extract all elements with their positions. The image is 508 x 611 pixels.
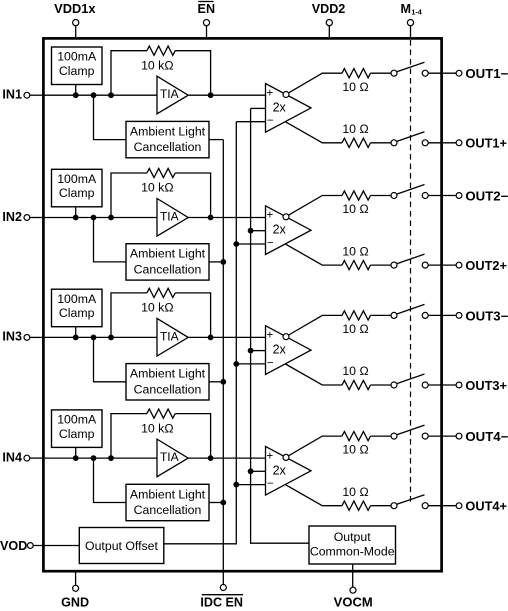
- op-amp TIA4: [157, 439, 188, 477]
- junction feedback4-TIA output: [208, 455, 214, 461]
- svg-text:IDC EN: IDC EN: [200, 596, 243, 610]
- terminal VDD2 (top): [312, 2, 346, 39]
- svg-text:IN1: IN1: [2, 88, 22, 102]
- svg-text:TIA: TIA: [160, 450, 179, 464]
- svg-text:2x: 2x: [273, 463, 287, 477]
- wire RO3P to switch: [371, 384, 392, 386]
- wire A1 inverting output: [289, 73, 342, 93]
- terminal OUT2+: [456, 259, 507, 273]
- wire feedback4 left: [111, 414, 147, 459]
- wire SW4P to OUT4+: [428, 505, 456, 507]
- wire A4 noninverting output: [286, 485, 343, 506]
- clamp block CLAMP3 (100mA Clamp): [52, 289, 103, 327]
- block ALC2 (Ambient Light Cancellation): [126, 244, 209, 280]
- resistor RO3P 10 &#937;: [342, 380, 371, 389]
- svg-text:EN: EN: [198, 2, 216, 16]
- label RO2P value: [342, 244, 368, 258]
- svg-text:10 kΩ: 10 kΩ: [141, 421, 173, 435]
- junction ALC4 tap: [91, 455, 97, 461]
- main block outline: [43, 38, 441, 571]
- svg-text:TIA: TIA: [160, 210, 179, 224]
- wire feedback3 right: [175, 293, 210, 338]
- svg-text:10 Ω: 10 Ω: [342, 80, 368, 94]
- label RF2 value: [141, 181, 173, 195]
- svg-text:Ambient Light: Ambient Light: [130, 247, 206, 261]
- label RO4P value: [342, 485, 368, 499]
- svg-text:OUT4−: OUT4−: [465, 430, 508, 444]
- switch SW4M: [391, 425, 428, 439]
- terminal OUT1+: [456, 137, 507, 151]
- svg-text:TIA: TIA: [160, 329, 179, 343]
- svg-text:100mA: 100mA: [57, 292, 97, 306]
- svg-text:−: −: [267, 357, 274, 369]
- wire clamp2 stem: [75, 207, 77, 218]
- svg-text:Cancellation: Cancellation: [134, 263, 202, 277]
- junction feedback4 left: [108, 455, 114, 461]
- wire SW1M to OUT1&#8722;: [428, 72, 456, 74]
- wire SW3M to OUT3&#8722;: [428, 314, 456, 316]
- wire ALC4 output: [209, 502, 223, 504]
- svg-text:10 Ω: 10 Ω: [342, 485, 368, 499]
- wire A1 noninverting output: [286, 122, 343, 143]
- wire amp2 mid input: [251, 230, 266, 232]
- svg-text:Common-Mode: Common-Mode: [310, 544, 395, 558]
- svg-text:Output: Output: [334, 530, 371, 544]
- svg-text:Ambient Light: Ambient Light: [130, 367, 206, 381]
- junction feedback1 left: [108, 92, 114, 98]
- wire RO1P to switch: [371, 142, 392, 144]
- svg-text:2x: 2x: [273, 100, 287, 114]
- wire feedback3 left: [111, 293, 147, 338]
- wire TIA4 output to amp: [188, 457, 265, 459]
- wire A3 noninverting output: [286, 364, 343, 385]
- wire to ALC1 input: [94, 95, 127, 139]
- label RO3P value: [342, 364, 368, 378]
- resistor RO4P 10 &#937;: [342, 501, 371, 510]
- svg-text:OUT3−: OUT3−: [465, 309, 508, 323]
- bus A (ALC control to IDC EN): [222, 140, 224, 585]
- svg-text:1-4: 1-4: [411, 7, 421, 16]
- svg-text:10 Ω: 10 Ω: [342, 244, 368, 258]
- junction clamp4-IN4: [73, 455, 79, 461]
- terminal GND: [61, 585, 89, 609]
- wire feedback2 left: [111, 173, 147, 218]
- wire SW2M to OUT2&#8722;: [428, 195, 456, 197]
- svg-text:10 Ω: 10 Ω: [342, 364, 368, 378]
- resistor RO4M 10 &#937;: [342, 432, 371, 441]
- svg-text:VDD1x: VDD1x: [54, 2, 95, 16]
- bus B (minus inputs to Output Offset): [164, 122, 237, 544]
- inverting output bubble A4: [283, 454, 289, 460]
- svg-text:Clamp: Clamp: [59, 186, 95, 200]
- inverting output bubble A3: [283, 334, 289, 340]
- wire A2 inverting output: [289, 196, 342, 216]
- resistor RF1 10 k&#937;: [147, 46, 175, 55]
- junction clamp3-IN3: [73, 335, 79, 341]
- op-amp A2 (2x output driver): [266, 206, 312, 255]
- terminal IN1: [2, 88, 43, 102]
- svg-text:100mA: 100mA: [57, 413, 97, 427]
- wire bus B start to amp1 minus input: [236, 121, 265, 123]
- op-amp A4 (2x output driver): [266, 446, 312, 495]
- wire clamp1 stem: [75, 85, 77, 96]
- svg-text:GND: GND: [61, 596, 89, 610]
- svg-text:OUT1−: OUT1−: [465, 67, 508, 81]
- wire SW2P to OUT2+: [428, 264, 456, 266]
- junction ALC4-bus: [220, 500, 226, 506]
- svg-text:IN3: IN3: [2, 330, 22, 344]
- wire amp4 minus input: [236, 484, 265, 486]
- junction ALC2 tap: [91, 215, 97, 221]
- wire amp3 mid input: [251, 350, 266, 352]
- svg-text:VOCM: VOCM: [334, 596, 373, 610]
- wire VOCM stem: [352, 564, 354, 587]
- junction amp4 mid input on bus C: [248, 468, 254, 474]
- terminal VOCM: [334, 587, 373, 610]
- wire ALC1 output: [209, 139, 223, 141]
- terminal OUT4&#8722;: [456, 430, 508, 444]
- wire A3 inverting output: [289, 315, 342, 335]
- op-amp TIA1: [157, 76, 188, 114]
- wire bus C start to amp1 mid input: [251, 107, 266, 109]
- resistor RO2P 10 &#937;: [342, 261, 371, 270]
- wire to ALC4 input: [94, 458, 127, 502]
- svg-text:100mA: 100mA: [57, 50, 97, 64]
- terminal OUT3+: [456, 379, 507, 393]
- svg-text:Output Offset: Output Offset: [85, 539, 158, 553]
- wire RO4P to switch: [371, 505, 392, 507]
- junction ALC3 tap: [91, 335, 97, 341]
- svg-text:10 kΩ: 10 kΩ: [141, 181, 173, 195]
- svg-text:−: −: [267, 237, 274, 249]
- resistor RO2M 10 &#937;: [342, 191, 371, 200]
- clamp block CLAMP1 (100mA Clamp): [52, 47, 103, 85]
- switch SW4P: [391, 495, 428, 509]
- svg-text:OUT4+: OUT4+: [465, 500, 507, 514]
- svg-text:+: +: [266, 450, 273, 462]
- op-amp A3 (2x output driver): [266, 326, 312, 375]
- inverting output bubble A2: [283, 214, 289, 220]
- wire clamp3 stem: [75, 327, 77, 338]
- label RO3M value: [342, 322, 368, 336]
- terminal EN (top): [198, 2, 216, 40]
- terminal IN3: [2, 330, 43, 344]
- label RF3 value: [141, 301, 173, 315]
- clamp block CLAMP4 (100mA Clamp): [52, 410, 103, 448]
- svg-text:2x: 2x: [273, 343, 287, 357]
- terminal VDD1x (top): [54, 2, 95, 39]
- svg-text:OUT2+: OUT2+: [465, 259, 507, 273]
- label RO2M value: [342, 202, 368, 216]
- svg-text:OUT1+: OUT1+: [465, 137, 507, 151]
- svg-text:Clamp: Clamp: [59, 64, 95, 78]
- resistor RO1P 10 &#937;: [342, 138, 371, 147]
- op-amp A1 (2x output driver): [266, 84, 312, 133]
- terminal IDC EN: [200, 585, 243, 610]
- svg-text:OUT2−: OUT2−: [465, 189, 508, 203]
- wire A2 noninverting output: [286, 244, 343, 265]
- label RF1 value: [141, 58, 173, 72]
- svg-text:−: −: [267, 115, 274, 127]
- resistor RF3 10 k&#937;: [147, 288, 175, 297]
- terminal OUT2&#8722;: [456, 189, 508, 203]
- wire to ALC3 input: [94, 337, 127, 381]
- svg-text:+: +: [266, 87, 273, 99]
- block ALC3 (Ambient Light Cancellation): [126, 364, 209, 400]
- switch SW1M: [391, 62, 428, 76]
- wire clamp4 stem: [75, 447, 77, 458]
- wire IN3 line: [43, 336, 157, 338]
- block ALC4 (Ambient Light Cancellation): [126, 484, 209, 520]
- junction ALC1 tap: [91, 92, 97, 98]
- svg-text:OUT3+: OUT3+: [465, 379, 507, 393]
- resistor RO1M 10 &#937;: [342, 69, 371, 78]
- wire RO1M to switch: [371, 72, 392, 74]
- wire TIA2 output to amp: [188, 217, 265, 219]
- switch SW3P: [391, 374, 428, 388]
- label RO1M value: [342, 80, 368, 94]
- resistor RF4 10 k&#937;: [147, 409, 175, 418]
- terminal IN4: [2, 450, 43, 464]
- wire GND stem: [75, 571, 77, 585]
- wire feedback4 right: [175, 414, 210, 459]
- clamp block CLAMP2 (100mA Clamp): [52, 169, 103, 207]
- switch SW1P: [391, 132, 428, 146]
- label RO4M value: [342, 443, 368, 457]
- dashed control line from M1-4: [410, 40, 412, 503]
- wire to ALC2 input: [94, 218, 127, 262]
- junction amp3 mid input on bus C: [248, 348, 254, 354]
- svg-text:Ambient Light: Ambient Light: [130, 124, 206, 138]
- block Output Common-Mode: [309, 526, 396, 564]
- wire amp4 mid input: [251, 470, 266, 472]
- svg-text:10 kΩ: 10 kΩ: [141, 301, 173, 315]
- junction amp4 minus input on bus B: [233, 482, 239, 488]
- wire ALC3 output: [209, 381, 223, 383]
- wire TIA3 output to amp: [188, 336, 265, 338]
- junction ALC2-bus: [220, 259, 226, 265]
- svg-text:+: +: [266, 330, 273, 342]
- wire feedback1 right: [175, 51, 210, 95]
- svg-text:Cancellation: Cancellation: [134, 382, 202, 396]
- svg-text:2x: 2x: [273, 223, 287, 237]
- junction clamp2-IN2: [73, 215, 79, 221]
- terminal OUT4+: [456, 500, 507, 514]
- svg-text:Ambient Light: Ambient Light: [130, 487, 206, 501]
- wire ALC2 output: [209, 261, 223, 263]
- terminal IN2: [2, 210, 43, 224]
- svg-text:Clamp: Clamp: [59, 306, 95, 320]
- wire SW4M to OUT4&#8722;: [428, 435, 456, 437]
- svg-text:IN2: IN2: [2, 210, 22, 224]
- svg-text:Cancellation: Cancellation: [134, 140, 202, 154]
- wire amp2 minus input: [236, 243, 265, 245]
- wire A4 inverting output: [289, 436, 342, 456]
- junction feedback1-TIA output: [208, 92, 214, 98]
- svg-text:M: M: [401, 2, 412, 16]
- svg-text:Clamp: Clamp: [59, 427, 95, 441]
- junction clamp1-IN1: [73, 92, 79, 98]
- label RO1P value: [342, 122, 368, 136]
- wire IN4 line: [43, 457, 157, 459]
- wire SW1P to OUT1+: [428, 142, 456, 144]
- block Output Offset: [79, 528, 164, 564]
- terminal M1-4 (top): [401, 2, 422, 39]
- svg-text:10 Ω: 10 Ω: [342, 443, 368, 457]
- op-amp TIA3: [157, 318, 188, 356]
- block ALC1 (Ambient Light Cancellation): [126, 121, 209, 157]
- terminal OUT1&#8722;: [456, 67, 508, 81]
- switch SW2P: [391, 254, 428, 268]
- svg-text:−: −: [267, 478, 274, 490]
- wire feedback2 right: [175, 173, 210, 218]
- svg-text:10 kΩ: 10 kΩ: [141, 58, 173, 72]
- switch SW3M: [391, 304, 428, 318]
- resistor RF2 10 k&#937;: [147, 168, 175, 177]
- svg-text:10 Ω: 10 Ω: [342, 322, 368, 336]
- wire RO2P to switch: [371, 264, 392, 266]
- junction amp2 minus input on bus B: [233, 241, 239, 247]
- svg-text:10 Ω: 10 Ω: [342, 202, 368, 216]
- junction feedback2-TIA output: [208, 215, 214, 221]
- resistor RO3M 10 &#937;: [342, 311, 371, 320]
- junction feedback2 left: [108, 215, 114, 221]
- svg-text:TIA: TIA: [160, 87, 179, 101]
- junction amp3 minus input on bus B: [233, 361, 239, 367]
- junction amp2 mid input on bus C: [248, 228, 254, 234]
- label RF4 value: [141, 421, 173, 435]
- svg-text:IN4: IN4: [2, 450, 22, 464]
- wire IN2 line: [43, 217, 157, 219]
- wire RO2M to switch: [371, 195, 392, 197]
- bus C (mid inputs to Output Common-Mode): [251, 108, 309, 543]
- junction feedback3 left: [108, 335, 114, 341]
- wire TIA1 output to amp: [188, 94, 265, 96]
- svg-text:VOD: VOD: [0, 539, 27, 553]
- terminal OUT3&#8722;: [456, 309, 508, 323]
- wire RO3M to switch: [371, 314, 392, 316]
- svg-text:10 Ω: 10 Ω: [342, 122, 368, 136]
- terminal VOD: [0, 539, 79, 553]
- op-amp TIA2: [157, 199, 188, 237]
- switch SW2M: [391, 185, 428, 199]
- svg-text:100mA: 100mA: [57, 172, 97, 186]
- inverting output bubble A1: [283, 92, 289, 98]
- svg-text:Cancellation: Cancellation: [134, 503, 202, 517]
- svg-text:+: +: [266, 210, 273, 222]
- wire RO4M to switch: [371, 435, 392, 437]
- svg-text:VDD2: VDD2: [312, 2, 346, 16]
- wire feedback1 left: [111, 51, 147, 95]
- wire amp3 minus input: [236, 363, 265, 365]
- wire SW3P to OUT3+: [428, 384, 456, 386]
- junction ALC3-bus: [220, 379, 226, 385]
- junction feedback3-TIA output: [208, 335, 214, 341]
- wire IN1 line: [43, 94, 157, 96]
